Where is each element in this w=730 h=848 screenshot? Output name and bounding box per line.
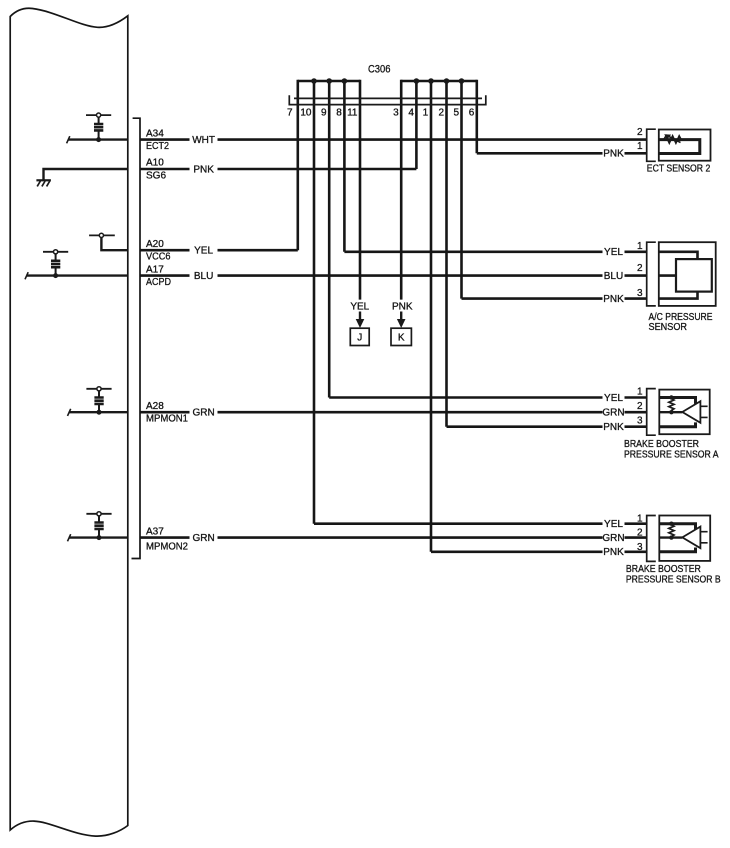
C306 column pin 1 bbox=[430, 80, 433, 552]
wire A28 shield to left bbox=[69, 411, 128, 413]
connector K box bbox=[391, 328, 411, 345]
A/C pressure sensor connector bracket bbox=[647, 242, 656, 306]
A/C pressure sensor box bbox=[659, 242, 716, 306]
wire A37 stub bbox=[140, 536, 190, 539]
BB-B amplifier triangle bbox=[682, 527, 700, 549]
sensing element square bbox=[676, 259, 712, 292]
svg-text:MPMON1: MPMON1 bbox=[146, 414, 188, 425]
shield drain symbol for A34 bbox=[86, 113, 111, 140]
brake booster sensor A connector bracket bbox=[647, 389, 656, 436]
ECM connector bracket bbox=[132, 118, 141, 558]
thermistor zigzag bbox=[664, 136, 681, 143]
junction dot A17 shield bbox=[53, 273, 58, 278]
svg-text:GRN: GRN bbox=[602, 533, 624, 544]
svg-text:GRN: GRN bbox=[192, 533, 214, 544]
harness torn-page outline bbox=[10, 8, 128, 836]
BB-A amplifier triangle bbox=[682, 401, 700, 423]
junction pin 1 bbox=[428, 78, 434, 84]
svg-text:YEL: YEL bbox=[350, 302, 369, 313]
svg-text:ECT SENSOR 2: ECT SENSOR 2 bbox=[647, 163, 711, 174]
junction pin 4 bbox=[414, 78, 420, 84]
svg-text:BLU: BLU bbox=[604, 271, 623, 282]
svg-text:GRN: GRN bbox=[192, 408, 214, 419]
svg-text:1: 1 bbox=[423, 108, 429, 119]
ECM pin A10 label bbox=[146, 158, 166, 182]
ground bbox=[36, 180, 51, 186]
wire A17 stub bbox=[140, 274, 190, 277]
connector J box bbox=[350, 328, 369, 345]
junction dot A34 shield bbox=[96, 137, 101, 142]
BB-B pin 2 internal lead bbox=[659, 536, 682, 538]
wire WHT run A34 to ECT sensor 2 pin 2 bbox=[218, 138, 647, 141]
C306 column pin 3 to K bbox=[400, 80, 403, 300]
junction dot A37 shield bbox=[97, 535, 102, 540]
svg-text:BLU: BLU bbox=[194, 271, 213, 282]
svg-text:7: 7 bbox=[287, 108, 293, 119]
C306 column pin 7 bbox=[296, 80, 299, 250]
BB-B pin 1 internal lead bbox=[659, 524, 695, 530]
svg-text:11: 11 bbox=[347, 108, 358, 119]
svg-text:PNK: PNK bbox=[392, 302, 413, 313]
C306 column pin 8 bbox=[343, 80, 346, 252]
svg-text:PNK: PNK bbox=[603, 547, 624, 558]
svg-text:1: 1 bbox=[637, 141, 643, 152]
svg-text:A20: A20 bbox=[146, 239, 164, 250]
junction pin 9 bbox=[326, 78, 332, 84]
svg-text:4: 4 bbox=[408, 108, 414, 119]
svg-text:A28: A28 bbox=[146, 401, 164, 412]
internal pin 3 lead bbox=[659, 292, 698, 299]
brake booster sensor A box bbox=[659, 390, 709, 435]
svg-text:K: K bbox=[398, 332, 405, 343]
BB-B internal resistor bbox=[669, 525, 674, 537]
svg-text:5: 5 bbox=[453, 108, 459, 119]
C306 column pin 5 bbox=[460, 80, 463, 299]
wire A10 stub bbox=[140, 168, 190, 171]
svg-text:YEL: YEL bbox=[194, 246, 213, 257]
wire PNK C306 pin 2 to brake booster sensor A pin 3 bbox=[447, 425, 603, 428]
C306 connector bar bbox=[289, 95, 486, 104]
junction dot A28 shield bbox=[97, 410, 102, 415]
svg-text:2: 2 bbox=[637, 528, 643, 539]
C306 jumper bus left (pins 7-10-9-8-11) bbox=[298, 80, 360, 83]
svg-text:PRESSURE SENSOR B: PRESSURE SENSOR B bbox=[626, 574, 721, 585]
svg-text:3: 3 bbox=[637, 288, 643, 299]
wire PNK C306 pin 6 to ECT sensor 2 pin 1 bbox=[477, 152, 603, 155]
brake booster sensor B connector bracket bbox=[647, 516, 656, 562]
C306 pin numbers bbox=[287, 108, 475, 119]
ECM pin A28 label bbox=[146, 401, 188, 425]
svg-text:3: 3 bbox=[393, 108, 399, 119]
svg-text:A/C PRESSURE: A/C PRESSURE bbox=[649, 312, 713, 323]
svg-text:1: 1 bbox=[637, 514, 643, 525]
svg-text:A10: A10 bbox=[146, 158, 164, 169]
C306 column pin 9 bbox=[328, 80, 331, 398]
svg-text:8: 8 bbox=[336, 108, 342, 119]
BB-B pin 3 internal lead bbox=[659, 548, 695, 552]
svg-text:GRN: GRN bbox=[602, 408, 624, 419]
shield terminal symbol for A20 bbox=[89, 233, 128, 250]
wire color labels near sensors bbox=[602, 149, 624, 559]
C306 bus junction dots bbox=[311, 78, 464, 84]
svg-text:PNK: PNK bbox=[603, 422, 624, 433]
junction pin 5 bbox=[459, 78, 465, 84]
BB-A pin 2 internal lead bbox=[659, 411, 682, 413]
arrow into J bbox=[359, 312, 361, 320]
svg-text:PNK: PNK bbox=[193, 164, 214, 175]
wire GRN run A37 to brake booster sensor B pin 2 bbox=[218, 536, 603, 539]
wire GRN run A28 to brake booster sensor A pin 2 bbox=[218, 411, 603, 414]
wire PNK C306 pin 1 to brake booster sensor B pin 3 bbox=[431, 550, 603, 553]
BB-A output stubs bbox=[700, 406, 707, 417]
brake booster sensor B box bbox=[659, 516, 710, 561]
svg-text:SG6: SG6 bbox=[146, 170, 166, 181]
svg-text:BRAKE BOOSTER: BRAKE BOOSTER bbox=[624, 439, 699, 450]
BB-A internal resistor bbox=[669, 399, 674, 411]
wire A34 stub bbox=[140, 138, 190, 141]
svg-text:ACPD: ACPD bbox=[146, 277, 171, 288]
shield drain symbol for A17 bbox=[43, 250, 68, 276]
wire A34 shield to left bbox=[68, 138, 128, 140]
svg-text:J: J bbox=[357, 332, 362, 343]
wire YEL C306 pin 9 to brake booster sensor A pin 1 bbox=[329, 396, 602, 399]
svg-text:A34: A34 bbox=[146, 128, 164, 139]
svg-text:PNK: PNK bbox=[603, 294, 624, 305]
BB-A pin 1 internal lead bbox=[659, 398, 695, 404]
svg-text:2: 2 bbox=[637, 263, 643, 274]
wire color labels near ECM bbox=[192, 135, 215, 544]
svg-text:WHT: WHT bbox=[192, 135, 215, 146]
svg-text:6: 6 bbox=[469, 108, 475, 119]
svg-text:YEL: YEL bbox=[604, 519, 623, 530]
internal pin 1 lead bbox=[659, 252, 698, 259]
svg-text:YEL: YEL bbox=[604, 393, 623, 404]
wire YEL C306 pin 8 to A/C pressure sensor pin 1 bbox=[344, 251, 602, 254]
wire BLU run A17 to A/C pressure sensor pin 2 bbox=[218, 274, 603, 277]
ECM pin A17 label bbox=[146, 264, 171, 288]
wire A20 stub bbox=[140, 249, 190, 252]
C306 column pin 2 bbox=[445, 80, 448, 427]
junction pin 2 bbox=[444, 78, 450, 84]
svg-text:A37: A37 bbox=[146, 526, 164, 537]
BB-B output stubs bbox=[700, 532, 707, 543]
ECM pin A37 label bbox=[146, 526, 188, 552]
wire A37 shield to left bbox=[69, 536, 128, 538]
svg-text:VCC6: VCC6 bbox=[146, 252, 171, 263]
C306 jumper bus right (pins 3-4-1-2-5-6) bbox=[401, 80, 477, 83]
svg-text:PRESSURE SENSOR A: PRESSURE SENSOR A bbox=[624, 449, 719, 460]
svg-text:3: 3 bbox=[637, 542, 643, 553]
svg-text:PNK: PNK bbox=[603, 149, 624, 160]
C306 column pin 4 bbox=[415, 80, 418, 169]
svg-text:3: 3 bbox=[637, 416, 643, 427]
wire A10 to chassis ground bbox=[44, 169, 128, 180]
svg-text:2: 2 bbox=[637, 401, 643, 412]
thermistor arrow bbox=[668, 136, 681, 143]
wire YEL run A20 to C306 pin 7 bbox=[218, 249, 298, 252]
ECT sensor 2 box bbox=[659, 130, 711, 161]
BB-A pin 3 internal lead bbox=[659, 422, 695, 426]
svg-text:1: 1 bbox=[637, 241, 643, 252]
svg-text:C306: C306 bbox=[368, 64, 391, 76]
shield drain symbol for A28 bbox=[86, 387, 111, 413]
svg-text:YEL: YEL bbox=[604, 247, 623, 258]
thermistor loop bbox=[659, 140, 700, 154]
svg-text:ECT2: ECT2 bbox=[146, 141, 169, 152]
ECT sensor 2 connector bracket bbox=[647, 129, 656, 161]
svg-text:1: 1 bbox=[637, 387, 643, 398]
svg-text:SENSOR: SENSOR bbox=[649, 322, 688, 333]
wire YEL C306 pin 10 to brake booster sensor B pin 1 bbox=[314, 522, 603, 525]
wire PNK run A10 to C306 pin 4 bbox=[218, 168, 417, 171]
internal pin 2 lead bbox=[659, 274, 676, 277]
wire A28 stub bbox=[140, 411, 190, 414]
wire A17 shield to left bbox=[26, 274, 127, 276]
junction pin 8 bbox=[342, 78, 348, 84]
C306 column pin 10 bbox=[313, 80, 316, 524]
svg-text:MPMON2: MPMON2 bbox=[146, 541, 188, 552]
arrow into K bbox=[400, 312, 402, 320]
svg-text:A17: A17 bbox=[146, 264, 164, 275]
sensor pin numbers bbox=[637, 127, 643, 553]
C306 column pin 11 to J bbox=[359, 80, 362, 300]
svg-text:9: 9 bbox=[321, 108, 327, 119]
svg-text:2: 2 bbox=[637, 127, 643, 138]
wire PNK C306 pin 5 to A/C pressure sensor pin 3 bbox=[462, 297, 603, 300]
junction pin 10 bbox=[311, 78, 317, 84]
ECM pin A20 label bbox=[146, 239, 171, 263]
svg-text:2: 2 bbox=[438, 108, 444, 119]
C306 column pin 6 bbox=[475, 80, 478, 154]
ECM pin A34 label bbox=[146, 128, 169, 152]
shield drain symbol for A37 bbox=[86, 512, 111, 538]
svg-text:BRAKE BOOSTER: BRAKE BOOSTER bbox=[626, 564, 701, 575]
svg-text:10: 10 bbox=[300, 108, 312, 119]
